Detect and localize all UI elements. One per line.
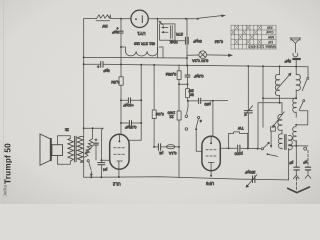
aux lever lower right <box>268 154 278 156</box>
svg-text:250pF: 250pF <box>244 170 255 174</box>
V2 cathode <box>208 161 214 163</box>
svg-text:0,1M: 0,1M <box>215 39 223 43</box>
svg-text:50µF: 50µF <box>192 39 201 43</box>
C11 hook <box>307 170 309 174</box>
speaker wire loop bottom <box>58 156 71 165</box>
svg-text:Trumpf 50: Trumpf 50 <box>4 143 13 184</box>
CT1 arrow <box>245 106 252 115</box>
svg-text:1W: 1W <box>102 24 108 28</box>
grid cap chain x101.4 <box>101 128 103 162</box>
wire S2 to tube2 grid-left <box>196 129 202 151</box>
node dots on x141 <box>140 99 142 101</box>
resistor underline bar <box>96 20 110 22</box>
triode/output tube V1 envelope <box>110 134 129 169</box>
vertical x263 <box>262 66 264 127</box>
T1 primary taps to rail <box>80 136 83 138</box>
resistor box R4 <box>177 111 181 120</box>
bottom return wire <box>84 177 289 180</box>
wire choke to corner <box>159 47 163 58</box>
L2 arrow <box>277 74 290 89</box>
svg-text:1 2 3 4 5 6: 1 2 3 4 5 6 <box>248 45 264 49</box>
wire fuse to x179 <box>175 146 179 148</box>
table crosses <box>231 25 261 44</box>
band switch S3 contact <box>307 77 309 79</box>
vertical x258 <box>257 103 259 149</box>
svg-text:0,5µF: 0,5µF <box>193 74 203 78</box>
IF secondary line y145.9 <box>289 145 308 147</box>
trimmer arrow <box>247 175 257 187</box>
line to right <box>241 147 261 149</box>
osc coil L2 with arrow <box>279 66 281 74</box>
V1 cathode to bottom wire <box>118 169 120 177</box>
vertical x121 lower <box>120 85 122 135</box>
vertical x121 upper <box>120 19 122 31</box>
bus node dots <box>83 63 85 65</box>
volume pot P1 stem <box>92 128 94 139</box>
vertical x121 mid <box>120 33 122 77</box>
switch S2 upper contact branch <box>187 101 188 114</box>
padder lead with arrow <box>270 131 272 146</box>
line y98.3 <box>263 97 296 99</box>
S2 lower contact <box>185 128 188 131</box>
band switch S5 lever <box>299 102 303 110</box>
cap C11 plates <box>305 166 310 168</box>
trimmer 250pF in bottom wire <box>252 176 254 183</box>
terminal circle <box>304 147 307 150</box>
V1 cathode <box>117 160 123 162</box>
bypass cap C4 plates <box>198 98 200 103</box>
vertical x154 upper <box>153 65 155 110</box>
rectifier cathode dot <box>135 18 137 20</box>
node dot x157 <box>157 18 159 20</box>
dial lamp wire left <box>187 54 199 56</box>
svg-text:+: + <box>97 64 100 69</box>
dial lamp cross <box>200 52 205 57</box>
band switch S4 lever <box>264 143 269 148</box>
svg-text:+10µF: +10µF <box>123 103 134 107</box>
resistor R-dropper zigzag <box>97 15 111 19</box>
line y102.7 <box>258 102 282 104</box>
V1 grid dashes row2 <box>114 153 117 155</box>
node dot fuse line left <box>153 146 155 148</box>
band switch S4 contact <box>261 148 263 150</box>
vertical wire x157 down <box>157 19 159 58</box>
svg-text:MW: MW <box>267 35 274 39</box>
band switch S5 contact <box>303 100 305 102</box>
V1 grid-left wire <box>101 159 109 161</box>
output transformer T1 primary zigzag <box>77 137 83 163</box>
node dot <box>120 46 122 48</box>
detour wire <box>296 111 308 125</box>
svg-text:Wellen: Wellen <box>265 45 275 49</box>
heater coil line from x121 <box>121 46 126 48</box>
grid lead tube2 <box>212 101 214 137</box>
svg-text:µk: µk <box>159 151 163 155</box>
speaker coil bar <box>50 139 52 161</box>
IF transformer right winding <box>288 139 290 141</box>
cap C5 plates <box>157 144 159 151</box>
fuse line y146.9 <box>154 146 158 148</box>
dial lamp wire right <box>207 54 230 56</box>
fuse Si oval <box>167 145 175 149</box>
svg-text:0,2M: 0,2M <box>111 80 119 84</box>
heater line y57.7 <box>84 56 187 59</box>
wire box to cap C-top <box>175 40 185 42</box>
node dot x186 <box>185 18 187 20</box>
node dots on x121 <box>120 99 122 101</box>
capacitor C-top plates <box>184 37 186 44</box>
svg-text:80: 80 <box>190 92 194 96</box>
svg-text:0,05µF: 0,05µF <box>124 125 136 129</box>
L3 arrow <box>274 112 285 126</box>
box arrow symbol b <box>163 31 169 33</box>
S2 lever <box>196 119 199 129</box>
vertical x154 lower <box>153 119 155 147</box>
svg-text:UY1: UY1 <box>137 31 146 36</box>
svg-text:1W0: 1W0 <box>168 111 176 115</box>
svg-text:0,05M: 0,05M <box>166 72 176 76</box>
svg-text:Jecka: Jecka <box>3 184 8 196</box>
V2 grid dashes row2 <box>206 155 208 157</box>
voltage selector table frame <box>231 25 276 49</box>
output transformer T1 secondary zigzag <box>68 138 74 161</box>
page margin rule <box>3 0 5 204</box>
osc coil L4 upper winding <box>293 98 296 117</box>
P1 switch arrow to bottom <box>90 172 92 177</box>
vertical wire x187 top <box>186 19 188 66</box>
svg-text:TW: TW <box>238 126 244 130</box>
resistor box R3 <box>177 71 181 80</box>
antenna stem <box>294 43 296 52</box>
antenna socket bar <box>293 58 300 60</box>
rectifier tube U1 circle <box>131 10 148 27</box>
svg-text:UL2: UL2 <box>112 182 120 187</box>
coupling cap C9 plates <box>237 145 239 152</box>
volume pot P1 zigzag <box>84 139 93 158</box>
svg-text:2W: 2W <box>188 88 194 92</box>
P1 switch contact <box>87 160 89 162</box>
grid feed line y128.2 <box>84 127 104 129</box>
resistor box R1 <box>119 77 123 85</box>
svg-text:µ50: µ50 <box>204 102 210 106</box>
wire top-left horizontal <box>84 18 97 20</box>
S2 lever nub <box>198 116 200 118</box>
V1 grid dashes row1 <box>114 147 117 149</box>
table row lines <box>231 29 276 31</box>
wire node to switch pivot <box>186 18 198 20</box>
svg-text:0,1M: 0,1M <box>156 112 164 116</box>
padder box <box>271 127 276 131</box>
chassis ground chevron <box>288 187 310 193</box>
cathode electrolytic C6 plates <box>94 142 99 144</box>
dial lamp La circle <box>199 51 207 59</box>
vertical to cap C10 <box>295 141 297 167</box>
svg-text:UF6: UF6 <box>205 181 214 186</box>
svg-text:µF: µF <box>303 160 307 164</box>
feedback loop box <box>229 132 248 148</box>
svg-text:2k: 2k <box>65 128 69 132</box>
bottom-right corner up <box>288 148 290 180</box>
mains switch S1 lever <box>199 16 222 19</box>
vertical x141 <box>129 65 141 141</box>
V1 anode lead <box>118 134 120 141</box>
V2 cathode to bottom wire <box>210 171 212 176</box>
S2 bottom node <box>195 128 197 130</box>
osc coil L4 lower winding <box>293 127 296 146</box>
antenna coil L1 <box>295 67 297 75</box>
IF transformer left winding <box>278 134 282 149</box>
transformer T1 core <box>74 136 76 162</box>
svg-text:µF: µF <box>289 160 293 164</box>
C7 lead to bottom wire <box>100 165 102 177</box>
band switch S3 lever <box>302 80 306 91</box>
cathode chain x187.5 upper <box>187 65 189 74</box>
tap arrow at node <box>160 22 164 25</box>
S2 upper contact <box>185 115 188 118</box>
svg-text:Conf: Conf <box>266 30 273 34</box>
svg-text:6,3V 0,2A: 6,3V 0,2A <box>192 59 209 63</box>
tuning cap CT1 with arrow <box>247 66 249 110</box>
switch lever tip blob <box>221 15 226 18</box>
vertical x179 with boxes <box>178 65 180 71</box>
IF core lines <box>284 135 286 150</box>
P1 wiper arrow <box>86 145 94 153</box>
node dot heater left <box>83 56 85 58</box>
pentode tube V2 envelope <box>202 136 220 170</box>
svg-text:µ4: µ4 <box>103 167 107 171</box>
svg-text:s: s <box>200 119 202 123</box>
coupling cap C2 branch y100 <box>121 99 128 101</box>
wire cap to fuse <box>161 146 166 148</box>
anode line over to coils <box>229 147 237 149</box>
dashed vertical x308 <box>307 150 309 166</box>
speaker wire loop top <box>58 136 71 145</box>
svg-text:0,1A: 0,1A <box>168 151 176 155</box>
antenna plug hook <box>293 53 298 57</box>
electrolytic cap C1 plates <box>119 30 123 32</box>
svg-text:0k1 2TR 1k0: 0k1 2TR 1k0 <box>134 41 155 45</box>
V2 anode-right wire <box>220 147 228 149</box>
RF coil L3 with arrow <box>281 103 283 115</box>
wire rectifier to node <box>148 18 186 20</box>
V2 anode lead <box>210 136 212 143</box>
V2 grid dashes row1 <box>206 149 208 151</box>
rectifier anode bar <box>141 16 143 23</box>
left rail x83.7 full <box>83 19 85 178</box>
resistor box R5 <box>186 89 190 98</box>
filter unit box <box>160 24 175 40</box>
node dot heater right <box>186 57 188 59</box>
svg-text:2TR: 2TR <box>176 32 183 36</box>
socket to bus <box>295 60 297 66</box>
main HT bus <box>84 63 100 65</box>
arrow tip right <box>228 54 233 57</box>
box inner bars <box>169 26 171 39</box>
bus cap C8uF plates <box>100 62 102 68</box>
resistor box R2 <box>152 110 156 119</box>
speaker LS cone <box>40 134 50 165</box>
box arrow symbol a <box>163 26 169 28</box>
cap C12 plates <box>185 74 190 76</box>
svg-text:5pF: 5pF <box>284 59 291 63</box>
join line y84.3 <box>179 83 188 85</box>
P1 switch lever <box>89 162 92 170</box>
mains switch S1 pivot dot <box>197 18 199 20</box>
table column lines <box>234 25 236 49</box>
svg-text:8µF: 8µF <box>103 68 110 72</box>
corner to y100.9 line <box>188 98 198 101</box>
wire resistor to rectifier <box>111 18 131 20</box>
svg-text:KW: KW <box>266 25 272 29</box>
speaker magnet box <box>52 145 63 156</box>
cap C10 plates <box>294 166 299 168</box>
svg-text:22: 22 <box>169 115 173 119</box>
chassis ground stem <box>296 178 298 191</box>
C10 hook <box>295 170 297 175</box>
coupling cap C3 branch y123 <box>121 122 129 124</box>
bus right corner down <box>307 67 309 77</box>
heater choke loops L-h <box>126 47 158 56</box>
svg-text:p100: p100 <box>235 151 243 155</box>
grid cap C7 plates <box>98 162 105 164</box>
line y100.9 to right <box>202 100 228 102</box>
svg-text:8µF: 8µF <box>111 30 118 34</box>
C6 lead down <box>95 145 97 160</box>
antenna symbol (inverted) <box>290 38 300 43</box>
